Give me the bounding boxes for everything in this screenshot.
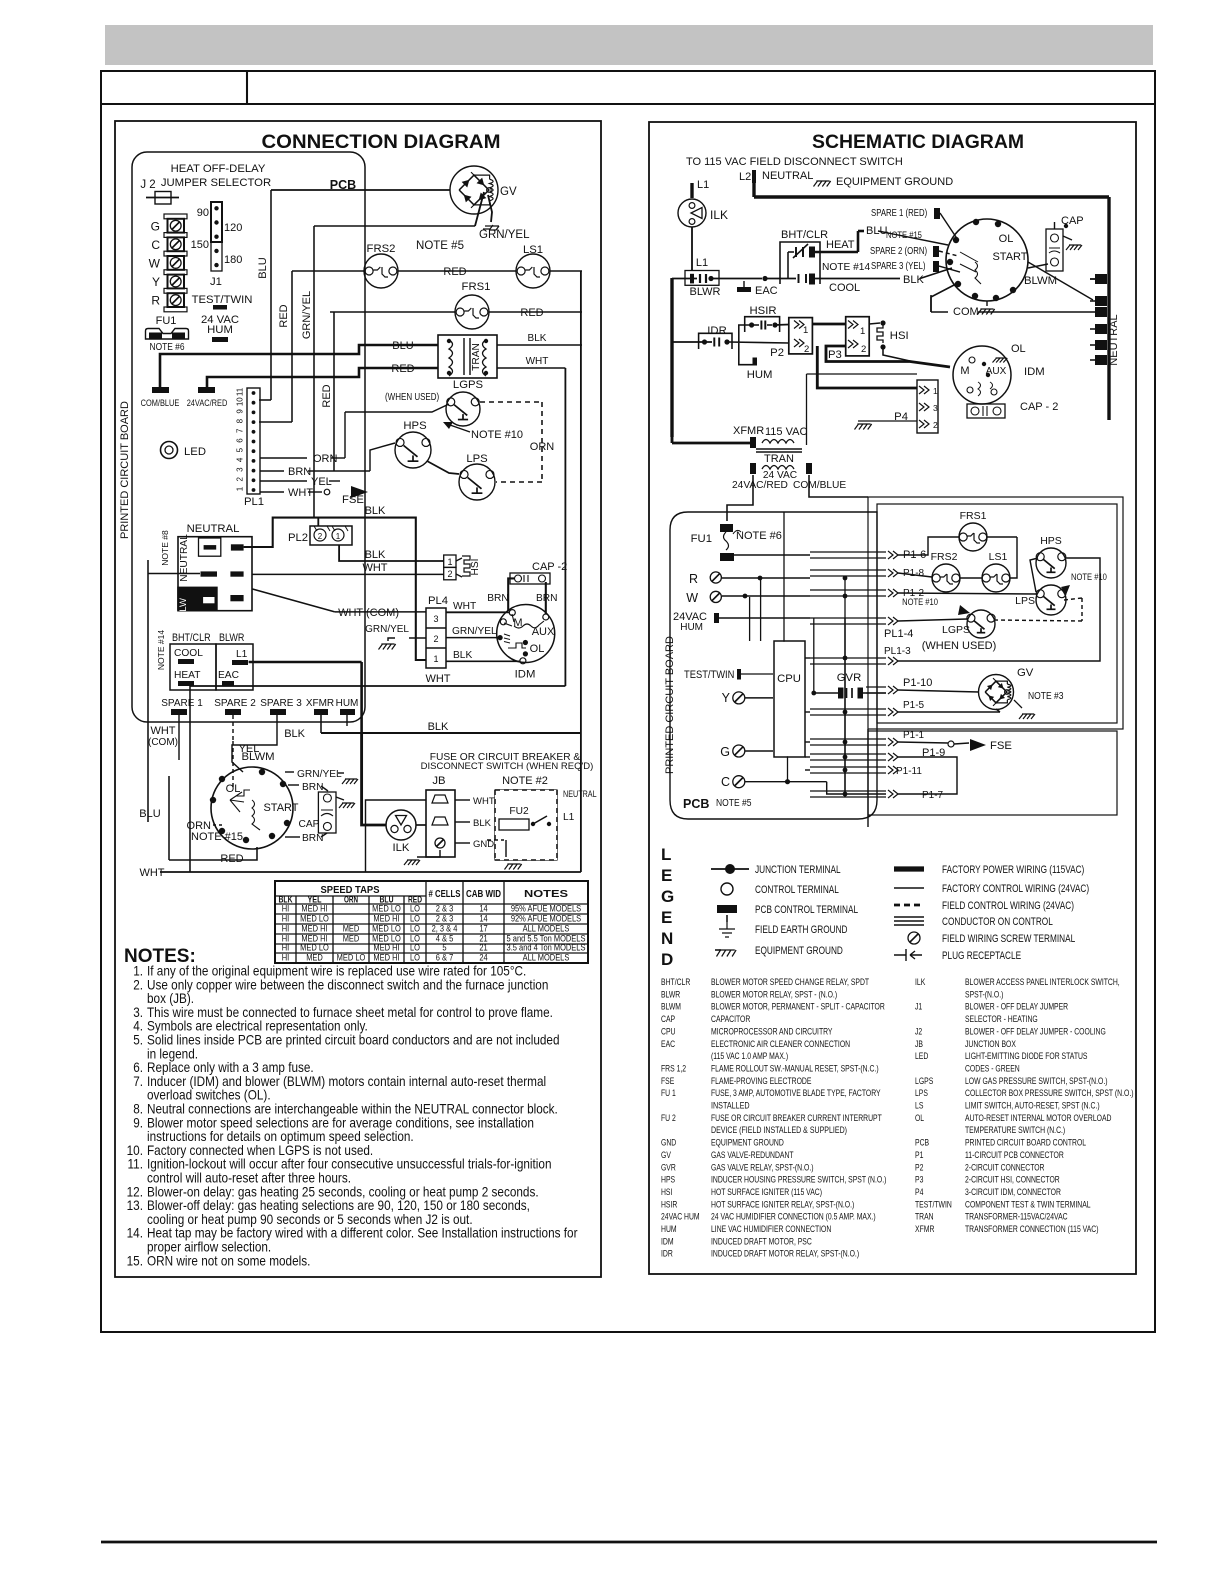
svg-text:TRAN: TRAN — [915, 1212, 934, 1223]
svg-text:TEST/TWIN: TEST/TWIN — [192, 294, 253, 306]
svg-text:LPS: LPS — [915, 1088, 928, 1099]
svg-text:BLU: BLU — [139, 808, 160, 820]
svg-text:BLWM: BLWM — [241, 751, 274, 763]
svg-text:P1-1: P1-1 — [903, 730, 925, 741]
svg-text:L1: L1 — [696, 257, 708, 269]
svg-text:FU 2: FU 2 — [661, 1113, 676, 1124]
svg-text:11.: 11. — [128, 1156, 144, 1172]
svg-text:FU1: FU1 — [691, 533, 712, 545]
svg-text:BLK: BLK — [528, 333, 547, 344]
svg-text:BLU: BLU — [866, 225, 887, 237]
svg-text:BLK: BLK — [365, 505, 386, 517]
svg-text:IDR: IDR — [661, 1249, 673, 1260]
svg-text:NOTE #14: NOTE #14 — [822, 262, 870, 273]
svg-text:TRAN: TRAN — [471, 343, 482, 371]
svg-text:DEVICE (FIELD INSTALLED & SU: DEVICE (FIELD INSTALLED & SUPPLIED) — [711, 1125, 847, 1136]
svg-text:BLOWER ACCESS PANEL INTERLOCK: BLOWER ACCESS PANEL INTERLOCK SWITCH, — [965, 977, 1120, 988]
svg-text:120: 120 — [224, 222, 242, 234]
svg-text:P3: P3 — [915, 1175, 923, 1186]
svg-text:NEUTRAL: NEUTRAL — [179, 534, 190, 582]
svg-text:CONNECTION DIAGRAM: CONNECTION DIAGRAM — [262, 131, 501, 153]
svg-text:SPARE 3: SPARE 3 — [260, 698, 302, 709]
svg-text:INDUCED DRAFT MOTOR, PSC: INDUCED DRAFT MOTOR, PSC — [711, 1236, 812, 1247]
svg-text:NEUTRAL: NEUTRAL — [762, 170, 813, 182]
svg-text:GAS VALVE-REDUNDANT: GAS VALVE-REDUNDANT — [711, 1150, 794, 1161]
svg-text:BLOWER MOTOR SPEED CHANGE RELA: BLOWER MOTOR SPEED CHANGE RELAY, SPDT — [711, 977, 869, 988]
svg-text:HOT SURFACE IGNITER RELAY, SPS: HOT SURFACE IGNITER RELAY, SPST-(N.O.) — [711, 1199, 854, 1210]
svg-text:NOTE #6: NOTE #6 — [736, 530, 782, 542]
svg-text:R: R — [689, 572, 698, 586]
svg-text:IDM: IDM — [1024, 366, 1045, 378]
svg-text:24VAC/RED: 24VAC/RED — [732, 480, 788, 491]
svg-text:W: W — [686, 591, 698, 605]
svg-text:RED: RED — [391, 363, 414, 375]
svg-text:ELECTRONIC AIR CLEANER CONNECT: ELECTRONIC AIR CLEANER CONNECTION — [711, 1039, 850, 1050]
svg-text:3: 3 — [433, 614, 438, 624]
svg-text:GVR: GVR — [661, 1162, 676, 1173]
svg-text:PLUG RECEPTACLE: PLUG RECEPTACLE — [942, 950, 1021, 962]
svg-text:BLK: BLK — [284, 728, 305, 740]
svg-text:3: 3 — [236, 467, 245, 472]
svg-text:Solid lines inside PCB are pri: Solid lines inside PCB are printed circu… — [147, 1032, 560, 1048]
svg-text:HUM: HUM — [336, 698, 359, 709]
svg-text:HOT SURFACE IGNITER (115 VAC): HOT SURFACE IGNITER (115 VAC) — [711, 1187, 822, 1198]
svg-text:BLK: BLK — [365, 549, 386, 561]
svg-text:WHT (COM): WHT (COM) — [338, 607, 399, 619]
svg-text:LED: LED — [184, 446, 206, 458]
svg-text:WHT: WHT — [288, 487, 313, 499]
svg-text:P1-7: P1-7 — [922, 790, 944, 801]
svg-text:9: 9 — [236, 409, 245, 414]
svg-text:J2: J2 — [915, 1026, 922, 1037]
svg-text:LED: LED — [915, 1051, 928, 1062]
svg-text:TRAN: TRAN — [764, 453, 794, 465]
svg-text:P2: P2 — [915, 1162, 923, 1173]
svg-text:115 VAC: 115 VAC — [765, 426, 807, 438]
svg-text:GRN/YEL: GRN/YEL — [479, 229, 530, 241]
svg-text:FSE: FSE — [661, 1076, 674, 1087]
svg-text:# CELLS: # CELLS — [429, 888, 461, 900]
svg-text:PCB: PCB — [915, 1138, 929, 1149]
svg-text:(WHEN USED): (WHEN USED) — [385, 392, 439, 403]
svg-text:BLWM: BLWM — [1024, 275, 1057, 287]
svg-text:14.: 14. — [127, 1225, 143, 1241]
svg-text:CAP - 2: CAP - 2 — [1020, 401, 1058, 413]
svg-text:CONTROL TERMINAL: CONTROL TERMINAL — [755, 884, 839, 896]
svg-text:FACTORY CONTROL WIRING (24VAC): FACTORY CONTROL WIRING (24VAC) — [942, 883, 1089, 895]
svg-text:P1-11: P1-11 — [896, 766, 922, 777]
svg-text:OL: OL — [999, 233, 1014, 245]
svg-text:GRN/YEL: GRN/YEL — [301, 291, 313, 339]
svg-text:BLU: BLU — [257, 257, 269, 278]
svg-text:START: START — [263, 802, 298, 814]
svg-text:LIGHT-EMITTING DIODE FOR STATU: LIGHT-EMITTING DIODE FOR STATUS — [965, 1051, 1088, 1062]
svg-text:PRINTED CIRCUIT BOARD: PRINTED CIRCUIT BOARD — [664, 636, 676, 774]
svg-text:NEUTRAL: NEUTRAL — [187, 523, 240, 535]
svg-text:2: 2 — [433, 634, 438, 644]
svg-text:FRS2: FRS2 — [931, 551, 958, 563]
svg-text:7: 7 — [236, 428, 245, 433]
svg-text:FLAME-PROVING ELECTRODE: FLAME-PROVING ELECTRODE — [711, 1076, 811, 1087]
svg-text:SPST-(N.O.): SPST-(N.O.) — [965, 989, 1003, 1000]
svg-text:LPS: LPS — [466, 453, 488, 465]
svg-text:HSIR: HSIR — [661, 1199, 677, 1210]
svg-text:LIMIT SWITCH, AUTO-RESET, SPST: LIMIT SWITCH, AUTO-RESET, SPST (N.C.) — [965, 1101, 1100, 1112]
svg-text:MICROPROCESSOR AND CIRCUITRY: MICROPROCESSOR AND CIRCUITRY — [711, 1026, 833, 1037]
svg-text:OL: OL — [226, 783, 241, 795]
svg-text:PRINTED CIRCUIT BOARD: PRINTED CIRCUIT BOARD — [119, 401, 131, 539]
svg-text:P1-5: P1-5 — [903, 700, 925, 711]
svg-text:1: 1 — [860, 326, 865, 337]
svg-text:6: 6 — [236, 438, 245, 443]
svg-text:ORN: ORN — [530, 441, 555, 453]
svg-text:GRN/YEL: GRN/YEL — [365, 624, 409, 635]
svg-text:SCHEMATIC DIAGRAM: SCHEMATIC DIAGRAM — [812, 131, 1024, 153]
svg-text:PL1: PL1 — [244, 496, 264, 508]
svg-text:HSI: HSI — [470, 559, 481, 576]
svg-text:24VAC/RED: 24VAC/RED — [187, 398, 228, 409]
svg-text:CPU: CPU — [661, 1026, 676, 1037]
svg-text:FU2: FU2 — [509, 806, 529, 817]
svg-text:BHT/CLR: BHT/CLR — [661, 977, 690, 988]
svg-text:LS1: LS1 — [989, 551, 1008, 563]
svg-text:NOTE #15: NOTE #15 — [191, 831, 243, 843]
svg-text:90: 90 — [197, 207, 209, 219]
svg-text:XFMR: XFMR — [915, 1224, 934, 1235]
svg-text:FUSE OR CIRCUIT BREAKER CURREN: FUSE OR CIRCUIT BREAKER CURRENT INTERRUP… — [711, 1113, 882, 1124]
svg-text:P1-10: P1-10 — [903, 677, 932, 689]
svg-text:BLW: BLW — [178, 598, 189, 618]
svg-text:NOTE #2: NOTE #2 — [502, 775, 548, 787]
svg-text:COM: COM — [953, 306, 979, 318]
svg-text:L: L — [661, 845, 671, 864]
svg-text:2: 2 — [447, 569, 452, 579]
svg-text:TEST/TWIN: TEST/TWIN — [915, 1199, 952, 1210]
svg-text:PL4: PL4 — [428, 595, 448, 607]
svg-text:CAB WID: CAB WID — [466, 888, 501, 900]
svg-text:OL: OL — [915, 1113, 924, 1124]
svg-text:PL2: PL2 — [288, 532, 308, 544]
svg-text:BLOWER MOTOR, PERMANENT - SPLI: BLOWER MOTOR, PERMANENT - SPLIT - CAPACI… — [711, 1002, 885, 1013]
svg-text:PCB CONTROL TERMINAL: PCB CONTROL TERMINAL — [755, 904, 858, 916]
svg-text:BLOWER - OFF DELAY JUMPER - CO: BLOWER - OFF DELAY JUMPER - COOLING — [965, 1026, 1106, 1037]
svg-text:D: D — [661, 950, 673, 969]
svg-text:1: 1 — [336, 532, 341, 541]
svg-text:P2: P2 — [770, 347, 784, 359]
svg-text:150: 150 — [191, 239, 209, 251]
svg-text:JUNCTION TERMINAL: JUNCTION TERMINAL — [755, 864, 841, 876]
svg-text:WHT: WHT — [139, 867, 164, 879]
svg-text:NOTE #3: NOTE #3 — [1028, 691, 1064, 702]
svg-text:BLOWER - OFF DELAY JUMPER: BLOWER - OFF DELAY JUMPER — [965, 1002, 1068, 1013]
svg-text:(WHEN USED): (WHEN USED) — [922, 640, 997, 652]
svg-text:RED: RED — [220, 853, 243, 865]
svg-text:7.: 7. — [133, 1073, 143, 1089]
svg-text:AUTO-RESET INTERNAL MOTOR OVER: AUTO-RESET INTERNAL MOTOR OVERLOAD — [965, 1113, 1112, 1124]
svg-text:ILK: ILK — [915, 977, 926, 988]
svg-text:M: M — [960, 365, 969, 377]
svg-text:R: R — [151, 294, 160, 308]
svg-text:Y: Y — [722, 691, 731, 705]
svg-text:GV: GV — [1017, 667, 1034, 679]
svg-text:HSIR: HSIR — [750, 305, 777, 317]
svg-text:(115 VAC 1.0 AMP MAX.): (115 VAC 1.0 AMP MAX.) — [711, 1051, 788, 1062]
svg-text:13.: 13. — [127, 1197, 143, 1213]
svg-text:GND: GND — [661, 1138, 676, 1149]
svg-text:HUM: HUM — [680, 622, 703, 633]
svg-text:BRN: BRN — [302, 833, 324, 844]
svg-text:XFMR: XFMR — [733, 425, 764, 437]
svg-text:CONDUCTOR ON CONTROL: CONDUCTOR ON CONTROL — [942, 916, 1053, 928]
svg-text:HUM: HUM — [207, 324, 233, 336]
svg-text:FUSE, 3 AMP, AUTOMOTIVE BLADE: FUSE, 3 AMP, AUTOMOTIVE BLADE TYPE, FACT… — [711, 1088, 881, 1099]
svg-text:CODES - GREEN: CODES - GREEN — [965, 1063, 1020, 1074]
svg-text:FRS1: FRS1 — [462, 281, 491, 293]
svg-text:HSI: HSI — [661, 1187, 672, 1198]
svg-text:COMPONENT TEST & TWIN TERMINAL: COMPONENT TEST & TWIN TERMINAL — [965, 1199, 1091, 1210]
svg-text:2: 2 — [318, 532, 323, 541]
svg-text:FLAME ROLLOUT SW.-MANUAL RESET: FLAME ROLLOUT SW.-MANUAL RESET, SPST-(N.… — [711, 1063, 879, 1074]
svg-text:(COM): (COM) — [148, 737, 178, 748]
svg-text:1: 1 — [803, 325, 808, 336]
svg-text:NOTE #10: NOTE #10 — [471, 429, 523, 441]
svg-text:BLWM: BLWM — [661, 1002, 681, 1013]
svg-text:PL1-3: PL1-3 — [884, 646, 911, 657]
svg-text:GV: GV — [500, 186, 517, 198]
svg-text:WHT: WHT — [150, 725, 175, 737]
svg-text:COM/BLUE: COM/BLUE — [793, 480, 846, 491]
svg-text:WHT: WHT — [425, 673, 450, 685]
svg-text:HPS: HPS — [661, 1175, 675, 1186]
svg-text:NOTE #6: NOTE #6 — [150, 341, 185, 353]
svg-text:BRN: BRN — [302, 782, 324, 793]
svg-text:BLK: BLK — [453, 650, 472, 661]
svg-text:NOTES: NOTES — [524, 888, 568, 900]
svg-text:HEAT OFF-DELAY: HEAT OFF-DELAY — [171, 163, 266, 175]
svg-text:ALL MODELS: ALL MODELS — [523, 953, 570, 964]
svg-text:GRN/YEL: GRN/YEL — [452, 626, 497, 637]
svg-text:FU1: FU1 — [156, 315, 177, 327]
svg-text:W: W — [149, 257, 161, 271]
svg-text:HPS: HPS — [403, 420, 427, 432]
svg-text:24 VAC HUMIDIFIER CONNECTION (: 24 VAC HUMIDIFIER CONNECTION (0.5 AMP. M… — [711, 1212, 876, 1223]
svg-text:XFMR: XFMR — [306, 698, 334, 709]
svg-text:L1: L1 — [236, 649, 248, 660]
svg-text:BLK: BLK — [473, 818, 492, 829]
svg-text:LPS: LPS — [1015, 595, 1035, 607]
svg-text:NOTE #14: NOTE #14 — [156, 630, 166, 670]
svg-text:11-CIRCUIT PCB CONNECTOR: 11-CIRCUIT PCB CONNECTOR — [965, 1150, 1064, 1161]
svg-text:WHT: WHT — [362, 562, 387, 574]
svg-text:2: 2 — [804, 344, 809, 355]
svg-text:1: 1 — [447, 557, 452, 567]
svg-text:BLOWER MOTOR RELAY, SPST - (N.: BLOWER MOTOR RELAY, SPST - (N.O.) — [711, 989, 837, 1000]
svg-text:BLWR: BLWR — [219, 632, 244, 644]
svg-text:ORN wire not on some models.: ORN wire not on some models. — [147, 1252, 310, 1268]
svg-text:FACTORY POWER WIRING (115VAC): FACTORY POWER WIRING (115VAC) — [942, 864, 1084, 876]
svg-text:P4: P4 — [915, 1187, 923, 1198]
svg-text:5: 5 — [236, 447, 245, 452]
svg-text:HEAT: HEAT — [826, 239, 855, 251]
svg-text:GVR: GVR — [837, 672, 861, 684]
svg-text:LS1: LS1 — [523, 244, 543, 256]
svg-text:COM/BLUE: COM/BLUE — [141, 398, 180, 409]
svg-text:G: G — [661, 887, 674, 906]
svg-text:LS: LS — [915, 1101, 923, 1112]
svg-text:WHT: WHT — [526, 356, 549, 367]
svg-text:3: 3 — [933, 403, 938, 413]
svg-text:BLK: BLK — [903, 274, 924, 286]
svg-text:GV: GV — [661, 1150, 671, 1161]
svg-text:TEST/TWIN: TEST/TWIN — [684, 669, 734, 681]
svg-text:INDUCED DRAFT MOTOR RELAY, SPS: INDUCED DRAFT MOTOR RELAY, SPST-(N.O.) — [711, 1249, 859, 1260]
svg-text:C: C — [721, 775, 730, 789]
svg-text:FSE: FSE — [342, 494, 364, 506]
svg-text:ILK: ILK — [393, 842, 410, 854]
svg-text:4: 4 — [236, 457, 245, 462]
svg-text:180: 180 — [224, 254, 242, 266]
svg-text:EAC: EAC — [755, 285, 778, 297]
svg-text:TRANSFORMER-115VAC/24VAC: TRANSFORMER-115VAC/24VAC — [965, 1212, 1068, 1223]
svg-text:GRN/YEL: GRN/YEL — [297, 769, 342, 780]
svg-text:FIELD WIRING SCREW TERMINAL: FIELD WIRING SCREW TERMINAL — [942, 933, 1075, 945]
svg-text:TO 115 VAC FIELD DISCONNECT SW: TO 115 VAC FIELD DISCONNECT SWITCH — [686, 156, 903, 168]
svg-text:NOTE #10: NOTE #10 — [1071, 572, 1107, 583]
svg-text:N: N — [661, 929, 673, 948]
svg-text:BLWR: BLWR — [690, 286, 721, 298]
svg-text:E: E — [661, 908, 672, 927]
svg-text:2: 2 — [933, 420, 938, 430]
svg-text:OL: OL — [1011, 343, 1026, 355]
svg-text:BHT/CLR: BHT/CLR — [172, 632, 211, 644]
svg-text:START: START — [992, 251, 1027, 263]
svg-text:NOTE #8: NOTE #8 — [160, 530, 170, 566]
svg-text:HUM: HUM — [747, 369, 773, 381]
svg-text:LGPS: LGPS — [915, 1076, 933, 1087]
svg-text:Y: Y — [152, 275, 160, 289]
svg-text:2.: 2. — [133, 976, 143, 992]
svg-text:GAS VALVE RELAY, SPST-(N.O.): GAS VALVE RELAY, SPST-(N.O.) — [711, 1162, 814, 1173]
svg-text:IDM: IDM — [661, 1236, 674, 1247]
svg-text:RED: RED — [321, 384, 333, 407]
svg-text:2-CIRCUIT HSI, CONNECTOR: 2-CIRCUIT HSI, CONNECTOR — [965, 1175, 1060, 1186]
svg-text:9.: 9. — [133, 1114, 143, 1130]
svg-text:INDUCER HOUSING PRESSURE SWITC: INDUCER HOUSING PRESSURE SWITCH, SPST (N… — [711, 1175, 886, 1186]
svg-text:WHT: WHT — [453, 601, 476, 612]
svg-text:OL: OL — [530, 643, 545, 655]
svg-text:LOW GAS PRESSURE SWITCH, SPST-: LOW GAS PRESSURE SWITCH, SPST-(N.O.) — [965, 1076, 1108, 1087]
svg-text:IDM: IDM — [515, 669, 536, 681]
svg-text:LGPS: LGPS — [453, 379, 484, 391]
svg-text:SPARE 3 (YEL): SPARE 3 (YEL) — [871, 261, 926, 272]
svg-text:FIELD EARTH GROUND: FIELD EARTH GROUND — [755, 924, 848, 936]
svg-text:J1: J1 — [210, 276, 222, 288]
svg-text:BLK: BLK — [428, 721, 449, 733]
svg-text:CAPACITOR: CAPACITOR — [711, 1014, 750, 1025]
svg-text:IDR: IDR — [707, 325, 726, 337]
svg-text:JB: JB — [915, 1039, 923, 1050]
svg-text:24VAC HUM: 24VAC HUM — [661, 1212, 700, 1223]
svg-text:NOTE #10: NOTE #10 — [902, 597, 938, 608]
svg-text:HEAT: HEAT — [174, 670, 200, 681]
svg-text:TRANSFORMER CONNECTION (115 VA: TRANSFORMER CONNECTION (115 VAC) — [965, 1224, 1099, 1235]
svg-text:TEMPERATURE SWITCH (N.C.): TEMPERATURE SWITCH (N.C.) — [965, 1125, 1065, 1136]
svg-text:G: G — [720, 745, 730, 759]
svg-text:SPARE 1 (RED): SPARE 1 (RED) — [871, 208, 927, 219]
svg-text:BHT/CLR: BHT/CLR — [781, 229, 828, 241]
svg-text:3-CIRCUIT IDM, CONNECTOR: 3-CIRCUIT IDM, CONNECTOR — [965, 1187, 1061, 1198]
svg-text:FU 1: FU 1 — [661, 1088, 676, 1099]
svg-text:10: 10 — [236, 397, 245, 406]
svg-text:11: 11 — [236, 387, 245, 396]
svg-text:NEUTRAL: NEUTRAL — [563, 789, 597, 799]
svg-text:8: 8 — [236, 418, 245, 423]
svg-text:HUM: HUM — [661, 1224, 677, 1235]
svg-text:L1: L1 — [697, 179, 709, 191]
svg-text:WHT: WHT — [473, 796, 495, 807]
svg-text:SELECTOR - HEATING: SELECTOR - HEATING — [965, 1014, 1038, 1025]
svg-text:PL1-4: PL1-4 — [884, 628, 913, 640]
svg-text:1: 1 — [433, 654, 438, 664]
svg-text:HSI: HSI — [890, 330, 909, 342]
svg-text:G: G — [151, 219, 160, 233]
svg-text:1: 1 — [236, 486, 245, 491]
svg-text:NOTE #5: NOTE #5 — [716, 798, 752, 809]
svg-text:JUNCTION BOX: JUNCTION BOX — [965, 1039, 1016, 1050]
svg-text:EQUIPMENT GROUND: EQUIPMENT GROUND — [755, 945, 843, 957]
svg-text:MED: MED — [343, 934, 360, 945]
svg-text:CAP: CAP — [299, 819, 320, 830]
svg-text:CAP: CAP — [661, 1014, 675, 1025]
svg-text:BRN: BRN — [288, 466, 311, 478]
svg-text:ORN: ORN — [344, 895, 358, 906]
svg-text:LGPS: LGPS — [942, 624, 970, 636]
svg-text:NOTE #15: NOTE #15 — [886, 230, 922, 241]
svg-text:C: C — [151, 238, 160, 252]
svg-text:EQUIPMENT GROUND: EQUIPMENT GROUND — [836, 176, 953, 188]
svg-text:RED: RED — [520, 307, 543, 319]
svg-text:FSE: FSE — [990, 740, 1012, 752]
svg-text:P3: P3 — [828, 349, 842, 361]
svg-text:CPU: CPU — [777, 673, 801, 685]
svg-text:FIELD CONTROL WIRING (24VAC): FIELD CONTROL WIRING (24VAC) — [942, 900, 1074, 912]
svg-text:JB: JB — [432, 775, 445, 787]
svg-text:BLWR: BLWR — [661, 989, 680, 1000]
svg-text:J 2: J 2 — [140, 179, 155, 191]
svg-text:CAP -2: CAP -2 — [532, 561, 567, 573]
svg-text:INSTALLED: INSTALLED — [711, 1101, 750, 1112]
svg-text:NOTE #5: NOTE #5 — [416, 240, 464, 252]
svg-text:PCB: PCB — [683, 797, 709, 811]
svg-text:COOL: COOL — [829, 282, 860, 294]
svg-text:HPS: HPS — [1040, 535, 1062, 547]
svg-text:COLLECTOR BOX PRESSURE SWITCH,: COLLECTOR BOX PRESSURE SWITCH, SPST (N.O… — [965, 1088, 1134, 1099]
svg-text:BLU: BLU — [392, 340, 413, 352]
svg-text:Use only copper wire between t: Use only copper wire between the disconn… — [147, 976, 548, 992]
svg-text:ILK: ILK — [710, 208, 728, 222]
svg-text:J1: J1 — [915, 1002, 922, 1013]
svg-text:EAC: EAC — [218, 670, 239, 681]
svg-text:DISCONNECT SWITCH (WHEN REQ'D): DISCONNECT SWITCH (WHEN REQ'D) — [421, 761, 594, 772]
svg-text:PRINTED CIRCUIT BOARD CONTROL: PRINTED CIRCUIT BOARD CONTROL — [965, 1138, 1086, 1149]
svg-text:1: 1 — [933, 386, 938, 396]
svg-text:RED: RED — [443, 266, 466, 278]
svg-text:FRS 1,2: FRS 1,2 — [661, 1063, 686, 1074]
svg-text:SPARE 2 (ORN): SPARE 2 (ORN) — [870, 246, 927, 257]
svg-text:FRS1: FRS1 — [960, 510, 987, 522]
svg-text:P1: P1 — [915, 1150, 923, 1161]
svg-text:15.: 15. — [127, 1252, 143, 1268]
